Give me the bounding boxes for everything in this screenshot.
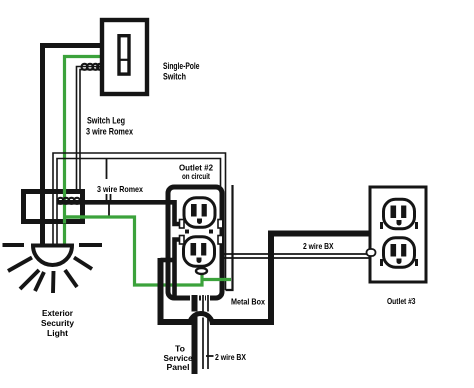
service cable: lower part to panel: [195, 317, 209, 375]
single-pole switch S1: [102, 20, 147, 94]
svg-text:Single-Pole: Single-Pole: [163, 61, 200, 71]
wire: switch-leg thin pair from switch to splice: [77, 67, 101, 201]
mounting tabs outlet #3: [380, 222, 383, 229]
svg-text:Panel: Panel: [167, 363, 190, 372]
svg-text:Exterior: Exterior: [42, 308, 74, 318]
cable sheath B: inner thin romex outline: [57, 159, 221, 246]
cable sheath: 2 wire BX thin pair to outlet #3: [222, 254, 370, 258]
wire: thick black from splice to outlet #2: [57, 200, 175, 205]
wire: green ground from switch down to light: [65, 57, 101, 246]
svg-text:on circuit: on circuit: [182, 172, 210, 181]
terminal screws outlet #2 right side: [218, 220, 223, 229]
svg-text:Service: Service: [164, 354, 194, 363]
cable sheath A: thin romex outline from light up and over to outlet #2: [53, 153, 233, 290]
light rays: [3, 245, 103, 293]
duplex receptacle upper face (outlet #2): [184, 198, 215, 227]
svg-text:2 wire BX: 2 wire BX: [215, 353, 247, 362]
wire: thick black inside box from lower terminal down to box bottom: [175, 240, 181, 297]
outlet #3 box: [370, 187, 426, 282]
service cable arch into metal box: [190, 314, 213, 326]
svg-text:3 wire Romex: 3 wire Romex: [97, 184, 143, 194]
cable clamp capsule at outlet #3 left edge: [367, 249, 376, 256]
receptacle mounting tabs outlet #2: [185, 230, 189, 234]
svg-text:Metal Box: Metal Box: [231, 298, 265, 307]
duplex receptacle lower face (outlet #3): [384, 238, 415, 267]
terminal screws outlet #2 left side: [180, 220, 185, 229]
svg-text:To: To: [175, 345, 185, 354]
wire: green from light junction to outlet #2 ground: [65, 217, 232, 285]
service cable: thick conductor (upper part inside box): [195, 295, 209, 312]
svg-text:Light: Light: [47, 328, 68, 338]
svg-text:Outlet #3: Outlet #3: [387, 297, 416, 306]
svg-text:Security: Security: [41, 318, 74, 328]
svg-text:Switch: Switch: [163, 72, 186, 82]
label leader ticks for 3 wire Romex: [107, 159, 111, 217]
light junction box: [24, 192, 83, 222]
splice squiggle at switch: [82, 64, 104, 70]
exterior security light dome: [33, 246, 72, 266]
splice squiggle at light box: [58, 198, 81, 204]
svg-text:2 wire BX: 2 wire BX: [303, 242, 334, 251]
wire patches over green crossing: [166, 279, 171, 292]
wire: stub from lower terminal wire to outer loop: [161, 258, 177, 263]
ground screw oval on lower receptacle: [196, 268, 207, 274]
svg-text:Switch Leg: Switch Leg: [87, 116, 125, 126]
duplex receptacle upper face (outlet #3): [384, 199, 415, 228]
metal box (outlet #2): [168, 187, 222, 298]
wires crossing light junction box: [43, 189, 86, 224]
wire: thick black inside box to upper terminal: [168, 202, 181, 224]
wire: thick black loop from outlet #2 around bottom to outlet #3: [161, 234, 370, 323]
leader tick for bottom 2 wire BX label: [206, 355, 214, 357]
duplex receptacle lower face (outlet #2): [184, 237, 215, 266]
switch toggle: [119, 36, 129, 74]
wire: black hot from switch down-left to light box: [43, 46, 101, 246]
svg-text:3 wire Romex: 3 wire Romex: [86, 127, 133, 137]
